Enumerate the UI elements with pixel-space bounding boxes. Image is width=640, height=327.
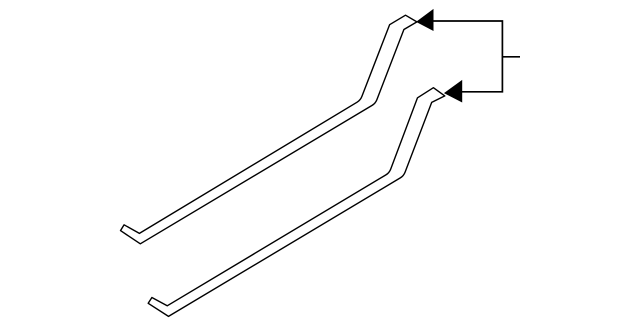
arrow 1 (pointer to tube 1) — [417, 10, 433, 30]
arrow 2 (pointer to tube 2) — [445, 81, 462, 102]
leader bracket (joins both arrows) — [433, 21, 502, 92]
tube 1 (upper fuel line) outline — [121, 15, 417, 244]
label tick (callout stub) — [502, 56, 520, 58]
tube 2 (lower fuel line) outline — [148, 88, 445, 317]
